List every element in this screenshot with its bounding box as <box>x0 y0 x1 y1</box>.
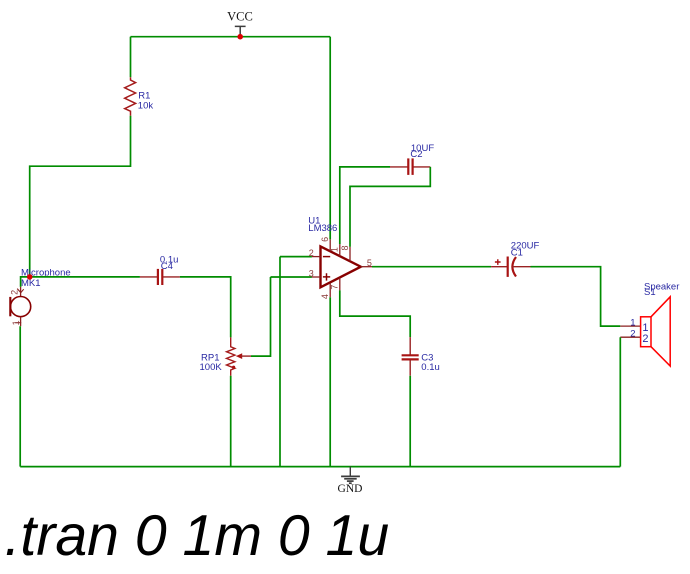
svg-text:7: 7 <box>330 285 340 290</box>
wire R1 bottom to mic junction <box>30 116 131 277</box>
svg-text:2: 2 <box>642 333 648 345</box>
svg-text:.tran 0 1m 0 1u: .tran 0 1m 0 1u <box>5 504 390 568</box>
junction dot microphone node <box>27 274 33 280</box>
wire C3 bottom to ground rail <box>409 376 411 467</box>
svg-text:2: 2 <box>10 290 20 295</box>
wire into pin 3 <box>271 276 312 278</box>
wire C2 right down to U1 pin 8 <box>350 167 430 247</box>
svg-text:GND: GND <box>338 483 363 495</box>
svg-text:2: 2 <box>309 248 314 258</box>
wire into pin 2 <box>280 256 312 258</box>
wire VCC top rail <box>131 36 331 38</box>
microphone MK1 <box>10 268 71 327</box>
wire junction to microphone <box>21 277 30 287</box>
svg-text:C4: C4 <box>161 261 173 272</box>
ground GND <box>338 467 363 495</box>
wire C4 to RP1 top <box>180 277 231 338</box>
svg-text:10k: 10k <box>138 100 154 111</box>
svg-text:8: 8 <box>340 245 350 250</box>
capacitor C2 10UF <box>390 143 434 175</box>
svg-text:C2: C2 <box>410 149 422 160</box>
wire ground bottom rail <box>20 466 620 468</box>
capacitor C1 220UF polarized <box>491 240 539 277</box>
svg-text:1: 1 <box>11 320 21 325</box>
wire microphone bottom to ground rail <box>19 326 21 466</box>
wire C1 to speaker pin 1 <box>531 267 621 326</box>
svg-text:5: 5 <box>367 258 372 268</box>
wire mic junction to C4 <box>30 276 140 278</box>
capacitor C3 0.1u <box>402 337 440 376</box>
wire RP1 wiper to U1 pin 3 <box>251 277 271 356</box>
svg-text:6: 6 <box>320 237 330 242</box>
svg-text:2: 2 <box>630 328 635 339</box>
wire U1 pin 7 to C3 <box>340 290 410 337</box>
power flag VCC <box>227 10 253 35</box>
resistor R1 10k <box>125 77 154 116</box>
wire speaker pin 2 to ground rail <box>619 337 621 466</box>
svg-text:C1: C1 <box>511 248 523 259</box>
svg-text:MK1: MK1 <box>21 278 41 289</box>
svg-text:4: 4 <box>320 294 330 299</box>
svg-text:1: 1 <box>630 317 635 328</box>
speaker S1 <box>620 281 679 366</box>
svg-text:0.1u: 0.1u <box>421 362 440 373</box>
svg-text:3: 3 <box>309 269 314 279</box>
wire U1 pin 5 to C1 <box>372 266 491 268</box>
wire RP1 bottom to ground rail <box>230 376 232 467</box>
potentiometer RP1 100K <box>200 337 252 375</box>
svg-text:1: 1 <box>330 247 340 252</box>
op-amp U1 LM386 <box>308 215 372 299</box>
wire U1 pin 1 up to C2 <box>340 167 390 244</box>
junction dot VCC node <box>237 34 243 40</box>
svg-text:100K: 100K <box>200 362 223 373</box>
wire U1 pin 2 to ground rail <box>279 257 281 467</box>
svg-text:VCC: VCC <box>227 10 253 24</box>
wire from rail down to R1 <box>130 37 132 77</box>
wire VCC rail right drop to U1 pin 6 <box>329 37 331 240</box>
capacitor C4 0.1u <box>140 255 180 285</box>
svg-text:S1: S1 <box>644 287 656 298</box>
wire U1 pin 4 to ground rail <box>329 297 331 466</box>
svg-text:LM386: LM386 <box>308 223 337 234</box>
